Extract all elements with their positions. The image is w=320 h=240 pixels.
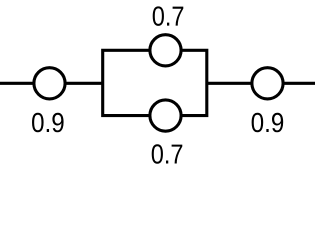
parallel block frame: top rail, bottom rail, left and right verticals [103, 50, 207, 115]
node: series component right, reliability 0.9 [252, 68, 283, 99]
value label 0.9 (left component) [32, 113, 64, 132]
wire: left input lead to parallel block [0, 82, 104, 85]
value label 0.9 (right component) [252, 113, 284, 132]
node: series component left, reliability 0.9 [34, 68, 65, 99]
value label 0.7 (top component) [153, 6, 184, 25]
node: parallel component top, reliability 0.7 [150, 35, 181, 66]
value label 0.7 (bottom component) [152, 144, 183, 163]
wire: right lead from parallel block to output [206, 82, 318, 85]
node: parallel component bottom, reliability 0.7 [150, 100, 181, 131]
